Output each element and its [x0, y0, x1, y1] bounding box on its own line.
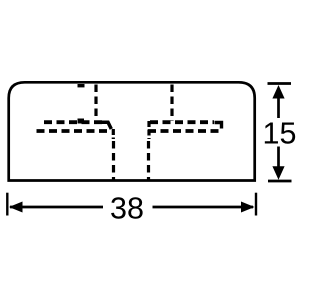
- svg-text:38: 38: [110, 192, 144, 226]
- svg-text:15: 15: [263, 117, 297, 151]
